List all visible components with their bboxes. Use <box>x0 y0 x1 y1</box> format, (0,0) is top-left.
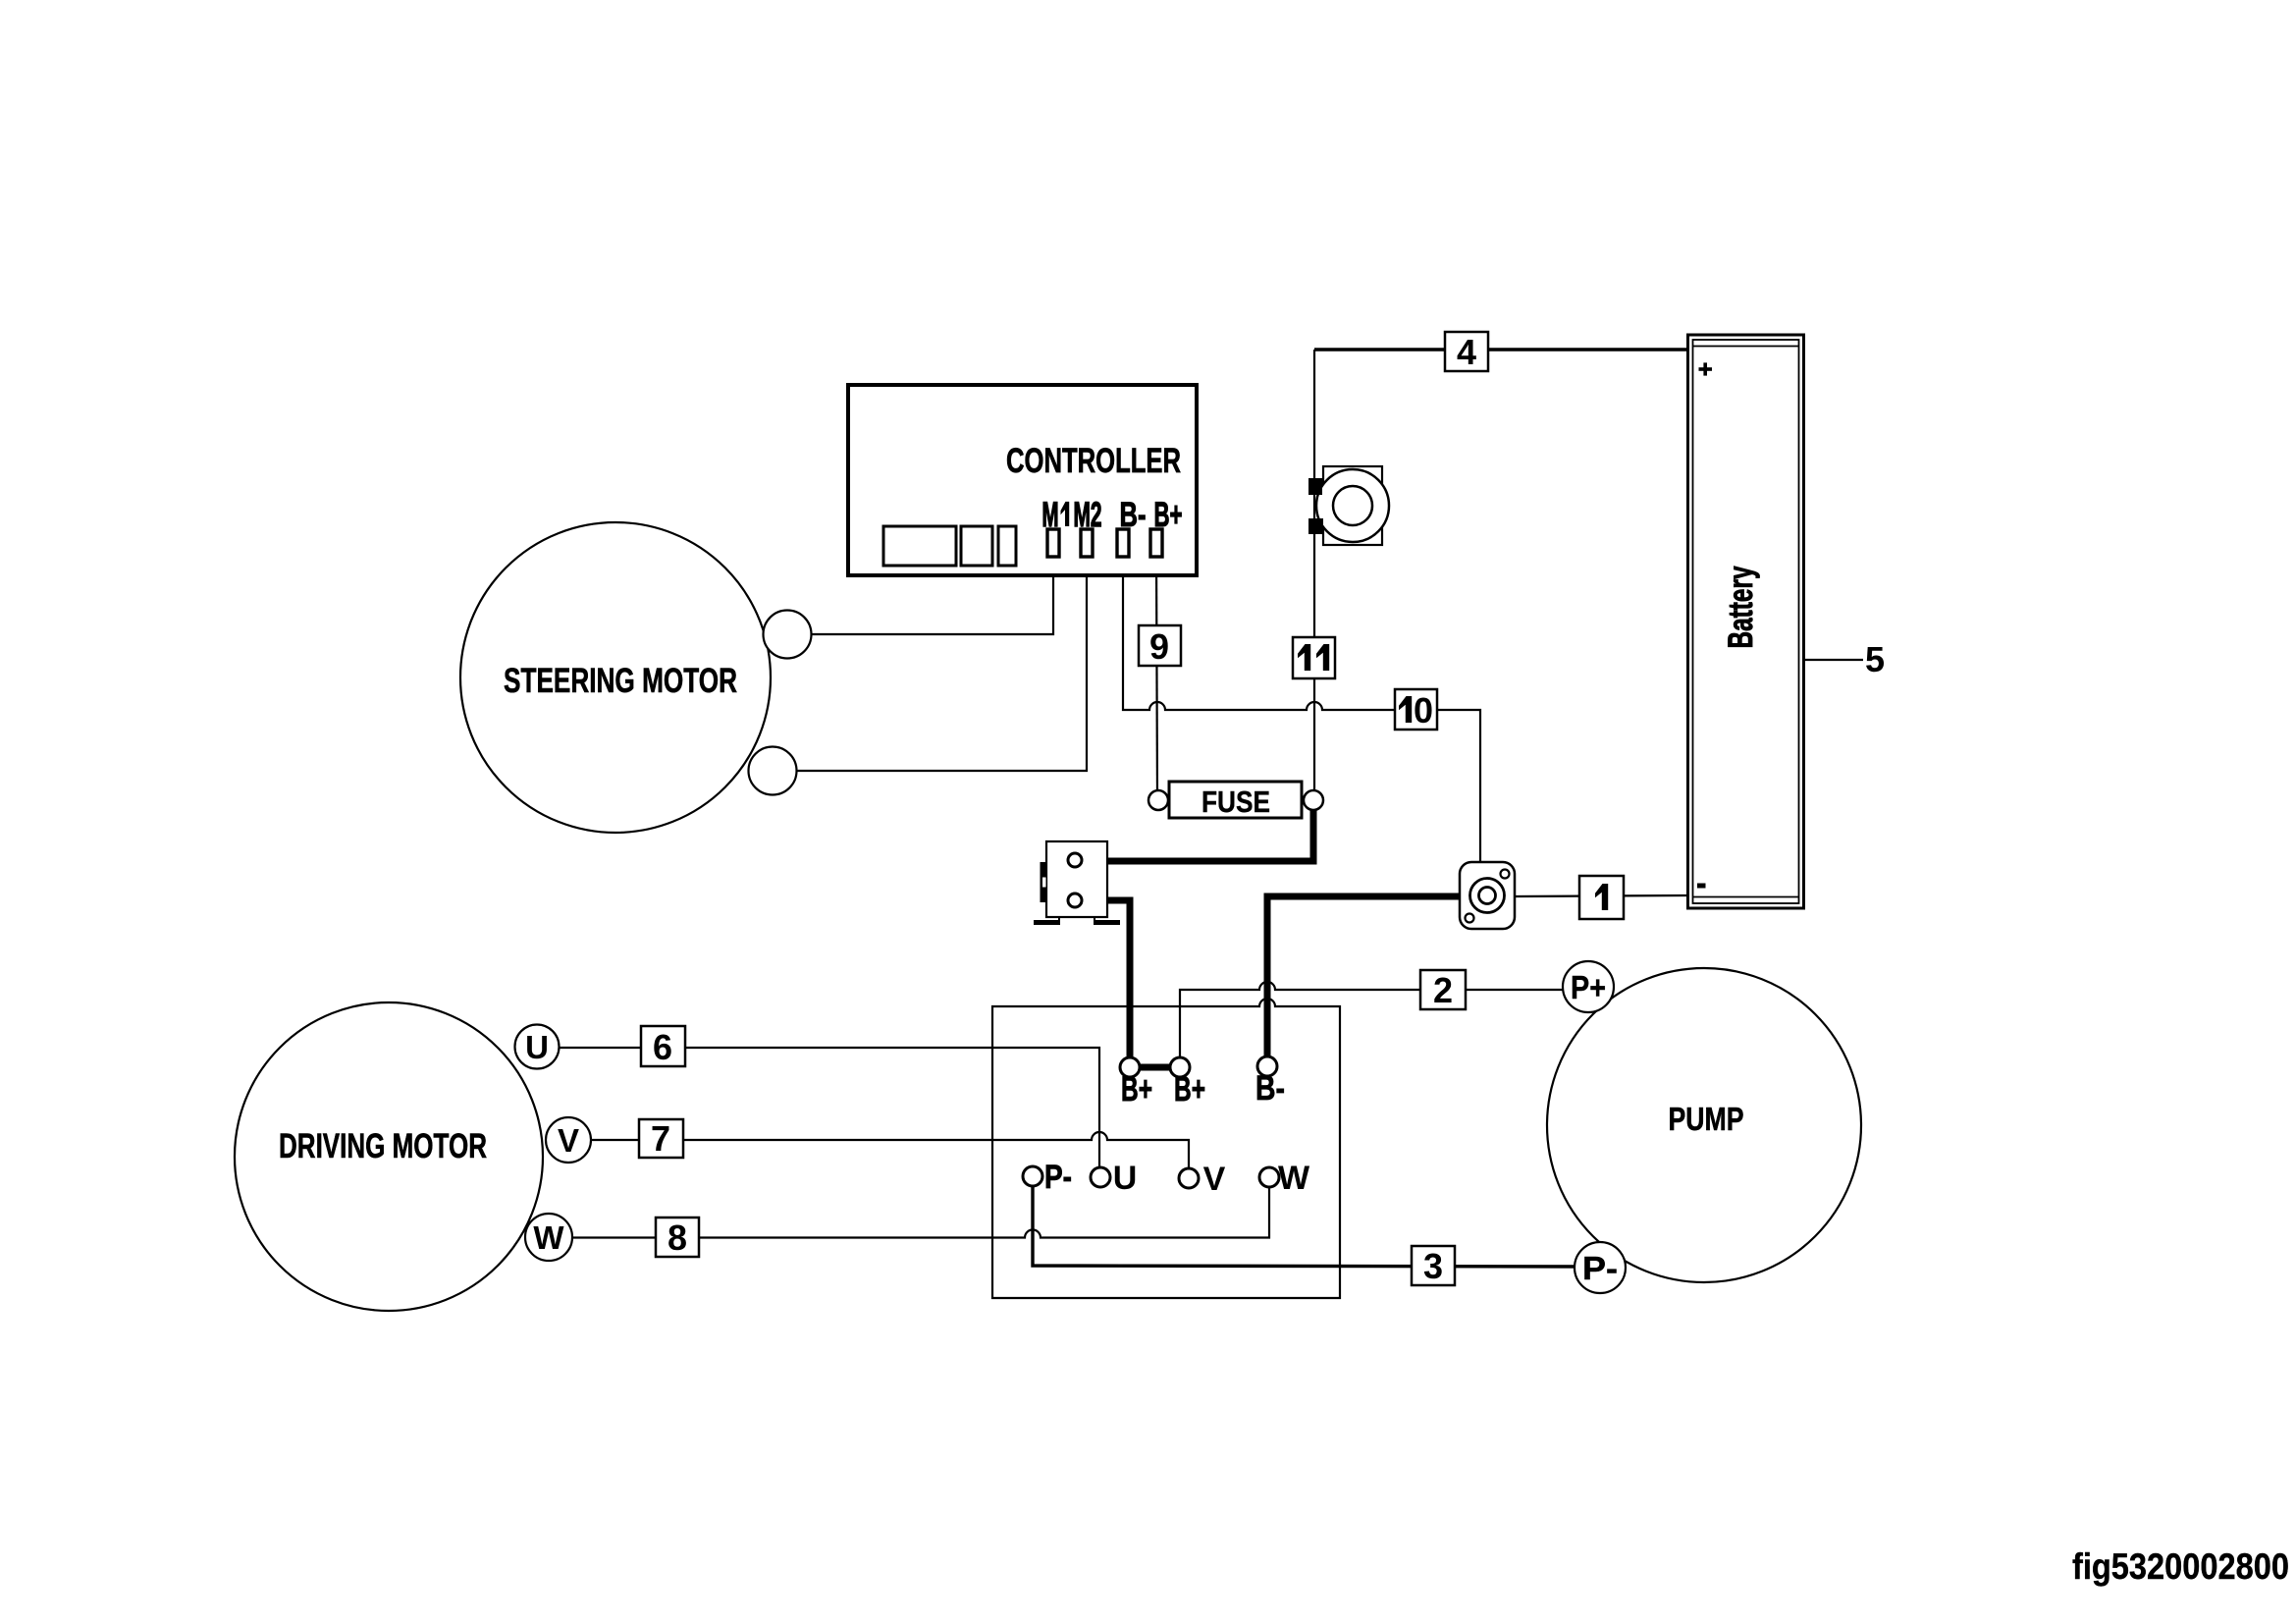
driving motor terminal U <box>515 1025 560 1069</box>
box 8 <box>656 1218 699 1257</box>
battery inner <box>1693 340 1799 903</box>
wire 5 battery label leader <box>1804 659 1863 661</box>
thick wire contactor lower terminal to B+ terminal <box>1075 900 1130 1067</box>
wire 10 from box to connector top <box>1437 710 1480 862</box>
svg-text:P-: P- <box>1044 1159 1072 1196</box>
terminal P- <box>1023 1166 1042 1186</box>
battery outer <box>1688 335 1804 908</box>
driving motor terminal W <box>525 1214 572 1261</box>
battery plus sign <box>1699 367 1713 371</box>
contactor lower terminal <box>1068 893 1082 907</box>
contactor body <box>1046 841 1107 917</box>
controller pin M1 <box>1047 529 1059 557</box>
svg-text:V: V <box>1203 1161 1226 1198</box>
svg-text:3: 3 <box>1423 1246 1443 1286</box>
box 2 <box>1420 970 1466 1009</box>
box 10 <box>1395 689 1437 730</box>
driving motor <box>235 1002 543 1311</box>
thick wire fuse right terminal to contactor upper terminal <box>1075 800 1313 861</box>
thick link B+ to B+ <box>1130 1064 1180 1071</box>
controller pin M2 <box>1081 529 1093 557</box>
terminal B+ 2 <box>1170 1057 1190 1077</box>
wire M1 from controller to steering motor upper terminal <box>791 555 1053 634</box>
box 4 <box>1445 332 1488 371</box>
svg-text:4: 4 <box>1457 332 1476 372</box>
svg-text:U: U <box>1113 1160 1138 1197</box>
svg-text:P+: P+ <box>1571 969 1606 1005</box>
svg-text:0: 0 <box>1414 690 1433 731</box>
svg-text:V: V <box>558 1122 579 1159</box>
svg-text:PUMP: PUMP <box>1669 1101 1744 1137</box>
key switch terminal square lower <box>1308 518 1323 534</box>
wire 3 / P- wire from box P- terminal to pump P- <box>1033 1176 1600 1267</box>
svg-text:P-: P- <box>1582 1250 1618 1286</box>
controller pin B+ <box>1150 529 1162 557</box>
pump terminal P- <box>1575 1242 1626 1293</box>
terminal B- <box>1257 1056 1277 1076</box>
contactor left foot <box>1034 920 1060 925</box>
controller mid connector rect <box>961 526 992 566</box>
pump terminal P+ <box>1563 961 1614 1012</box>
svg-text:W: W <box>1278 1160 1310 1197</box>
svg-text:U: U <box>525 1029 549 1065</box>
terminal W <box>1259 1167 1279 1187</box>
svg-text:DRIVING MOTOR: DRIVING MOTOR <box>279 1127 487 1165</box>
svg-text:7: 7 <box>651 1118 670 1159</box>
fuse left terminal <box>1148 790 1168 810</box>
central box (controller power section outline) <box>992 999 1340 1298</box>
contactor right foot <box>1094 920 1120 925</box>
svg-text:B+: B+ <box>1174 1070 1205 1109</box>
controller box <box>848 385 1197 575</box>
driving motor terminal V <box>546 1117 591 1163</box>
svg-text:W: W <box>533 1219 564 1256</box>
box 9 <box>1139 625 1181 666</box>
svg-text:5: 5 <box>1865 639 1885 679</box>
svg-text:6: 6 <box>653 1027 672 1067</box>
controller pin B- <box>1117 529 1129 557</box>
thick wire B- terminal up and right to connector <box>1267 896 1460 1066</box>
box 1 <box>1579 876 1624 919</box>
svg-text:B-: B- <box>1255 1069 1285 1108</box>
controller wide connector rect <box>883 526 956 566</box>
steering motor <box>460 522 771 833</box>
wire 8 from driving motor W to box W terminal with hop over P- wire <box>572 1177 1269 1238</box>
svg-text:fig5320002800: fig5320002800 <box>2072 1546 2289 1587</box>
svg-text:CONTROLLER: CONTROLLER <box>1006 442 1181 480</box>
terminal V <box>1179 1168 1199 1188</box>
wire 7 from driving motor V to box V terminal with hop over wire 6 <box>591 1132 1189 1178</box>
box 11 <box>1293 637 1335 678</box>
wire 9 controller B+ pin down to fuse left terminal <box>1156 555 1157 800</box>
steering motor lower terminal <box>749 747 797 795</box>
terminal U <box>1091 1167 1110 1187</box>
pump <box>1547 968 1861 1282</box>
wire 2 from B+ terminal up to P+ with hop over B- wire <box>1180 982 1588 1067</box>
box 7 <box>639 1119 683 1158</box>
svg-text:B+: B+ <box>1121 1070 1152 1109</box>
terminal B+ 1 <box>1120 1057 1140 1077</box>
svg-text:8: 8 <box>667 1218 687 1258</box>
svg-text:9: 9 <box>1149 626 1169 667</box>
fuse right terminal <box>1304 790 1323 810</box>
key switch terminal square upper <box>1308 478 1322 495</box>
wire 4 battery plus wire <box>1314 348 1687 351</box>
contactor coil bar <box>1041 862 1048 902</box>
battery minus sign <box>1697 884 1706 889</box>
svg-text:Battery: Battery <box>1722 566 1760 648</box>
key switch <box>1323 466 1382 545</box>
contactor upper terminal <box>1068 853 1082 867</box>
wire 11 / key switch vertical from battery+ wire down to fuse right terminal <box>1313 350 1315 800</box>
svg-text:2: 2 <box>1433 970 1453 1010</box>
svg-text:STEERING MOTOR: STEERING MOTOR <box>504 662 737 700</box>
wire from controller B- pin to box 10 with hops <box>1123 555 1395 710</box>
box 6 <box>641 1026 685 1066</box>
steering motor upper terminal <box>764 611 812 659</box>
box 3 <box>1412 1246 1455 1285</box>
connector (battery plug) <box>1460 862 1515 929</box>
fuse <box>1169 782 1302 818</box>
wire M2 from controller to steering motor lower terminal <box>775 555 1087 771</box>
wire 1 connector to battery minus <box>1515 895 1687 896</box>
controller small connector rect <box>998 526 1016 566</box>
svg-text:FUSE: FUSE <box>1201 785 1270 819</box>
wire 6 from driving motor U to box U terminal <box>559 1048 1099 1177</box>
